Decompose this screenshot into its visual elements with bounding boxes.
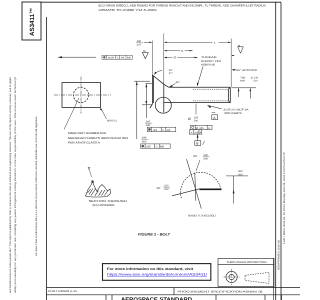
svg-text:.340: .340 — [145, 124, 151, 127]
svg-text:ability and suitability for an: ability and suitability for any particul… — [14, 77, 17, 293]
svg-text:AⓂ: AⓂ — [121, 56, 126, 59]
svg-text:C: C — [156, 146, 158, 149]
svg-text:↗: ↗ — [190, 131, 192, 134]
svg-text:.400: .400 — [141, 140, 147, 143]
svg-text:PER AS8879: PER AS8879 — [225, 112, 243, 115]
svg-text:.060: .060 — [238, 173, 244, 176]
svg-text:ECU GRAIN DIRECL'L ADD R000R2: ECU GRAIN DIRECL'L ADD R000R2 FOR THREAD… — [99, 3, 267, 7]
svg-text:REAFFIRMED 2019-08: REAFFIRMED 2019-08 — [277, 239, 280, 270]
svg-text:AⓂ: AⓂ — [167, 128, 172, 132]
svg-text:MIN: MIN — [240, 80, 245, 83]
svg-text:.004: .004 — [152, 129, 157, 132]
svg-text:(ID) LOCKWIRE: (ID) LOCKWIRE — [93, 203, 115, 207]
svg-text:PER AS478 CLASS A: PER AS478 CLASS A — [68, 141, 100, 145]
svg-text:RUNOUT PER: RUNOUT PER — [201, 60, 221, 63]
svg-text:.005: .005 — [146, 146, 151, 149]
svg-text:CUST DOWN 6-25: CUST DOWN 6-25 — [48, 290, 78, 293]
svg-text:AS3411™: AS3411™ — [29, 8, 36, 36]
svg-text:K: K — [181, 49, 183, 53]
svg-text:.440: .440 — [141, 137, 147, 140]
svg-text:For more information on this s: For more information on this standard, v… — [107, 267, 194, 271]
svg-text:MARK PART NUMBER AND: MARK PART NUMBER AND — [68, 131, 106, 135]
svg-text:THIRD ANGLE PROJECTION: THIRD ANGLE PROJECTION — [227, 261, 267, 264]
svg-text:.360: .360 — [145, 120, 151, 123]
svg-text:.001Ⓜ: .001Ⓜ — [107, 56, 114, 59]
svg-text:.100: .100 — [203, 154, 209, 157]
svg-text:our copies of best record hand: our copies of best record hand-over this… — [35, 116, 38, 256]
svg-text:40R (²⁄₃): 40R (²⁄₃) — [107, 120, 117, 123]
svg-text:PROCUREMENT SPECIFICATION ASNM: PROCUREMENT SPECIFICATION ASNMV (B — [178, 290, 263, 293]
svg-text:45° APPROX: 45° APPROX — [236, 69, 257, 72]
svg-text:57°: 57° — [169, 72, 173, 75]
svg-text:C: C — [117, 56, 119, 59]
svg-text:2B: 2B — [143, 50, 146, 53]
svg-text:A: A — [213, 116, 216, 120]
svg-text:C: C — [162, 129, 164, 132]
svg-text:.210: .210 — [253, 80, 258, 83]
svg-text:MANUFACTURER'S IDENTIFICATION: MANUFACTURER'S IDENTIFICATION — [68, 136, 128, 140]
svg-text:OR: OR — [157, 187, 161, 190]
svg-text:.010: .010 — [164, 188, 170, 191]
svg-text:OR: OR — [193, 155, 197, 158]
svg-text:AS8879 (4): AS8879 (4) — [201, 63, 215, 66]
svg-text:.190: .190 — [136, 40, 142, 43]
svg-text:L: L — [214, 40, 216, 44]
svg-text:.100: .100 — [238, 170, 244, 173]
svg-text:.005: .005 — [194, 131, 199, 134]
svg-text:FIGURE 1 - BOLT: FIGURE 1 - BOLT — [138, 233, 171, 237]
svg-text:Ø: Ø — [188, 117, 191, 121]
svg-text:.200: .200 — [193, 119, 198, 122]
svg-text:34°: 34° — [176, 81, 180, 84]
svg-text:BⓂ: BⓂ — [160, 145, 165, 149]
svg-text:THREAD: THREAD — [201, 56, 217, 59]
svg-text:.060: .060 — [203, 157, 209, 160]
svg-text:FLAT I MBILI 2024-05, FILIPOLI: FLAT I MBILI 2024-05, FILIPOLI Monday, A… — [283, 152, 286, 244]
svg-text:B: B — [196, 142, 199, 146]
svg-text:BⓂ: BⓂ — [127, 56, 132, 59]
svg-text:G: G — [174, 56, 177, 60]
svg-text:.015: .015 — [164, 184, 170, 187]
svg-text:RUNOUT R, PLATED BOLT: RUNOUT R, PLATED BOLT — [188, 215, 216, 218]
svg-text:and Distrib-Owned or Rules peo: and Distrib-Owned or Rules people But." … — [9, 76, 12, 293]
svg-text:Ø .005: Ø .005 — [196, 127, 204, 130]
svg-text:https://www.sae.org/standards/: https://www.sae.org/standards/content/AS… — [107, 272, 207, 276]
svg-text:.170: .170 — [136, 44, 142, 47]
svg-text:UPDATE TO ASME Y14.5-2009: UPDATE TO ASME Y14.5-2009 — [99, 8, 158, 12]
